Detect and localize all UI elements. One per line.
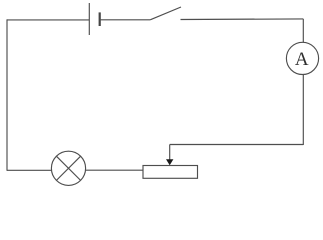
wire right vertical lower (ammeter to bottom corner): [302, 74, 304, 145]
lamp L (circle): [51, 151, 85, 185]
battery short plate (negative): [99, 12, 101, 26]
lamp cross stroke 1: [56, 156, 80, 180]
wire right vertical upper (corner to ammeter): [302, 19, 304, 43]
lamp cross stroke 2: [56, 156, 80, 180]
wire left vertical: [6, 19, 8, 170]
wire battery to switch: [100, 19, 151, 21]
ammeter A (circle): [286, 42, 318, 74]
battery long plate (positive): [88, 3, 90, 35]
rheostat R (resistance box): [143, 166, 198, 179]
wire rheostat slider vertical: [169, 145, 171, 161]
svg-text:A: A: [295, 49, 309, 70]
wire switch contact to top-right corner: [181, 18, 304, 21]
switch S (open blade): [150, 7, 181, 20]
wire lamp to rheostat: [86, 169, 143, 171]
wire bottom-left horizontal (corner to lamp): [7, 169, 51, 171]
wire top-left horizontal (corner to battery): [7, 19, 89, 21]
wire bottom-right horizontal (to rheostat slider): [170, 144, 304, 146]
rheostat slider arrowhead: [166, 159, 173, 165]
